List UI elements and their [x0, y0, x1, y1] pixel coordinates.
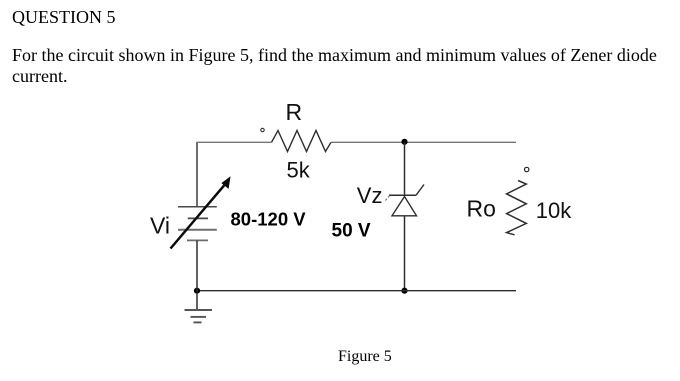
resistor Ro — [507, 181, 527, 235]
figure caption — [338, 348, 392, 366]
label R — [286, 99, 303, 125]
pin marker: small circle above resistor Ro — [525, 167, 529, 171]
wire: zener branch upper vertical — [404, 142, 406, 195]
variable-source arrow across Vi — [171, 177, 230, 248]
ground — [185, 291, 213, 323]
wire: bottom rail — [197, 290, 516, 292]
label Ro — [467, 196, 496, 222]
question body line 2 — [12, 66, 67, 87]
variable source Vi (battery plates) — [178, 207, 217, 241]
svg-text:Ro: Ro — [467, 196, 496, 222]
value label 50 V — [332, 221, 371, 242]
wire: top rail left segment — [196, 141, 271, 143]
value label 80-120 V — [231, 209, 307, 230]
resistor R — [272, 131, 332, 152]
svg-text:80-120 V: 80-120 V — [231, 209, 307, 230]
svg-text:5k: 5k — [287, 158, 311, 183]
label Vz — [357, 183, 383, 208]
value label 5k — [287, 158, 311, 183]
svg-text:10k: 10k — [536, 198, 572, 223]
question body line 1 — [12, 45, 657, 66]
wire: zener branch lower vertical — [404, 216, 406, 291]
svg-text:R: R — [286, 99, 303, 125]
pin marker: small circle at left terminal of resistor R — [261, 128, 264, 131]
node: top junction — [401, 139, 407, 145]
svg-text:Vi: Vi — [150, 213, 170, 239]
value label 10k — [536, 198, 572, 223]
node: bottom junction — [401, 288, 407, 294]
node: source bottom junction — [194, 288, 200, 294]
zener diode Vz — [385, 185, 425, 216]
question heading — [12, 7, 116, 28]
svg-text:Vz: Vz — [357, 183, 383, 208]
wire: source to bottom rail — [196, 240, 198, 290]
svg-text:50 V: 50 V — [332, 221, 371, 242]
wire: top rail right segment — [331, 141, 516, 143]
wire: top-left vertical from top rail to source Vi — [196, 142, 198, 207]
label Vi — [150, 213, 170, 239]
